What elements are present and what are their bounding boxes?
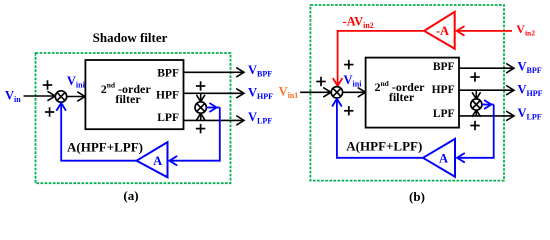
wire summer 2 output to feedback amp A (a) — [169, 103, 219, 165]
plus sign upper-left of summer 1 (b) — [316, 77, 325, 86]
plus sign above summer 2 (a) — [196, 81, 205, 90]
summer 1 circle with X (a) — [55, 91, 66, 102]
wire BPF output (b) — [459, 64, 514, 73]
plus sign below summer 2 (b) — [470, 121, 479, 130]
svg-text:BPF: BPF — [157, 67, 179, 79]
summer 1 circle with X (b) — [331, 87, 342, 98]
wire LPF output (b) — [459, 112, 514, 121]
plus sign upper-left of summer 1 (a) — [43, 80, 52, 89]
wire -A amp output down to summer 1 (b) — [333, 31, 424, 86]
svg-text:A(HPF+LPF): A(HPF+LPF) — [67, 139, 143, 154]
svg-text:A: A — [153, 154, 162, 168]
wire summer 1 to filter box (a) — [67, 92, 85, 101]
plus sign above summer 2 (b) — [470, 72, 479, 81]
amplifier A triangle (b) — [423, 139, 455, 177]
wire BPF output (a) — [184, 68, 245, 77]
wire LPF output (a) — [184, 116, 245, 125]
amplifier -A triangle (b) — [424, 12, 455, 49]
svg-text:A(HPF+LPF): A(HPF+LPF) — [346, 139, 422, 154]
plus sign below summer 2 (a) — [196, 124, 205, 133]
summer 2 circle with X (b) — [471, 99, 482, 110]
wire LPF tap up into summer 2 (b) — [472, 110, 480, 116]
summer 2 circle with X (a) — [195, 102, 206, 113]
wire summer 1 to filter box (b) — [343, 88, 366, 97]
svg-text:HPF: HPF — [432, 84, 455, 96]
wire amp A output to summer 1 (a) — [57, 103, 137, 161]
plus sign lower-right of summer 1 (b) — [344, 106, 353, 115]
plus sign lower-left of summer 1 (a) — [45, 107, 54, 116]
wire LPF tap up into summer 2 (a) — [197, 113, 205, 120]
svg-text:LPF: LPF — [433, 108, 455, 120]
svg-text:Shadow filter: Shadow filter — [93, 30, 168, 45]
wire amp A output to summer 1 (b) — [333, 99, 424, 158]
2nd-order filter box (b) — [366, 58, 459, 128]
2nd-order filter box (a) — [85, 60, 183, 129]
plus sign upper-right of summer 1 (b) — [344, 60, 353, 69]
svg-text:filter: filter — [389, 90, 415, 104]
svg-text:BPF: BPF — [433, 61, 455, 73]
wire Vin2 input to -A amp (b) — [457, 27, 512, 36]
svg-text:filter: filter — [115, 92, 141, 106]
shadow filter dashed enclosure (b) — [310, 5, 504, 181]
wire HPF tap down into summer 2 (a) — [197, 93, 205, 101]
shadow filter dashed enclosure (a) — [36, 53, 231, 183]
wire summer 2 output to feedback amp A (b) — [457, 100, 494, 162]
svg-text:LPF: LPF — [157, 112, 179, 124]
wire HPF tap down into summer 2 (b) — [472, 90, 480, 99]
wire Vin1 input (b) — [300, 88, 331, 97]
svg-text:(b): (b) — [409, 189, 425, 204]
svg-text:(a): (a) — [123, 188, 138, 203]
wire HPF output (b) — [459, 86, 514, 95]
svg-text:A: A — [439, 151, 448, 165]
wire Vin input (a) — [24, 92, 56, 101]
svg-text:-A: -A — [436, 24, 449, 38]
wire HPF output (a) — [184, 89, 245, 98]
amplifier A triangle (a) — [137, 142, 168, 177]
svg-text:HPF: HPF — [156, 89, 179, 101]
